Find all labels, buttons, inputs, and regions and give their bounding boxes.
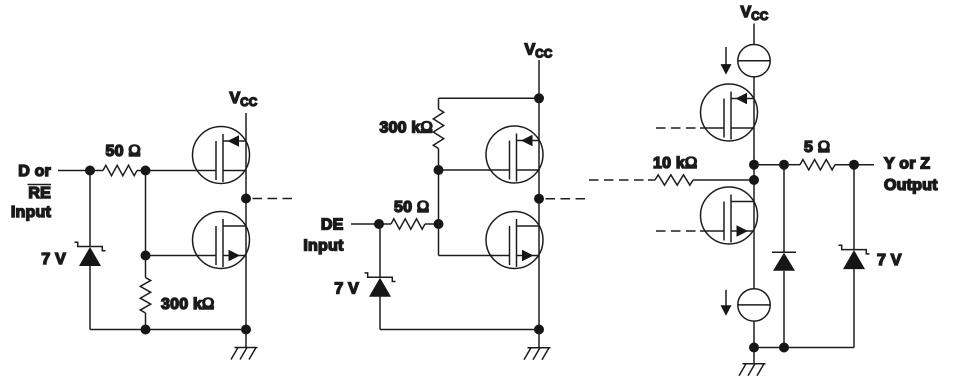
node A junction bbox=[85, 166, 95, 176]
svg-text:10 kΩ: 10 kΩ bbox=[653, 153, 697, 172]
svg-text:7 V: 7 V bbox=[877, 252, 902, 269]
current source I2 bbox=[738, 289, 770, 321]
node C junction bbox=[141, 251, 151, 261]
Vcc rail right bbox=[753, 77, 755, 288]
p-channel mosfet Q5 bbox=[701, 84, 758, 141]
wire I2 to ground node bbox=[753, 321, 755, 347]
Vcc label right bbox=[741, 4, 769, 23]
resistor R6 5 ohm bbox=[784, 160, 854, 170]
node K junction bbox=[749, 160, 759, 170]
resistor R1 50 ohm bbox=[90, 165, 146, 175]
wire node B down to node C bbox=[145, 171, 147, 256]
label 7 V bbox=[41, 251, 66, 268]
resistor R4 300 kohm bbox=[433, 98, 443, 170]
label 7 V middle bbox=[334, 281, 359, 298]
svg-text:5 Ω: 5 Ω bbox=[804, 137, 830, 156]
wire node A down to D1 bbox=[89, 171, 91, 247]
wire D3 anode to rail bbox=[783, 271, 785, 348]
svg-text:7 V: 7 V bbox=[41, 251, 66, 268]
current source I1 bbox=[738, 45, 770, 77]
node H junction mid bbox=[534, 194, 544, 204]
junction D3 to rail bbox=[779, 343, 789, 353]
n-channel mosfet Q4 bbox=[486, 212, 543, 269]
node M output junction bbox=[849, 160, 859, 170]
node F junction bbox=[434, 219, 444, 229]
svg-text:Y or Z: Y or Z bbox=[884, 156, 930, 173]
wire node E down to D2 bbox=[379, 224, 381, 277]
wire node F down to Q4 gate bbox=[439, 224, 511, 256]
ground symbol middle bbox=[524, 330, 551, 360]
ground node junction bbox=[749, 343, 759, 353]
node G junction bbox=[434, 165, 444, 175]
n-channel mosfet Q2 bbox=[193, 212, 250, 269]
arrow current direction I2 bbox=[721, 290, 732, 316]
svg-text:Output: Output bbox=[884, 177, 938, 194]
wire node G to Q3 gate bbox=[439, 169, 511, 171]
label 7 V right bbox=[877, 252, 902, 269]
label 10 kohm bbox=[653, 153, 697, 172]
svg-text:50 Ω: 50 Ω bbox=[394, 197, 429, 216]
svg-text:V: V bbox=[741, 4, 752, 21]
label 300 kohm middle bbox=[379, 118, 433, 137]
node J junction bbox=[749, 175, 759, 185]
resistor R3 50 ohm bbox=[379, 219, 439, 229]
junction R2 to rail bbox=[141, 325, 151, 335]
arrow current direction I1 bbox=[721, 47, 732, 75]
wire node F up to node G bbox=[438, 170, 440, 224]
svg-text:CC: CC bbox=[751, 11, 768, 23]
wire DE input to node E bbox=[351, 223, 379, 225]
svg-text:300 kΩ: 300 kΩ bbox=[161, 294, 215, 313]
junction on Vcc rail bbox=[534, 93, 544, 103]
wire R4 top to Vcc rail bbox=[439, 97, 540, 99]
bottom ground rail bbox=[90, 329, 246, 331]
wire node K to node L bbox=[754, 164, 784, 166]
wire node B to Q1 gate bbox=[146, 170, 217, 172]
svg-text:CC: CC bbox=[240, 97, 257, 109]
label 50 ohm middle bbox=[394, 197, 429, 216]
Vcc rail middle bbox=[538, 60, 540, 330]
p-channel mosfet Q3 bbox=[486, 126, 543, 183]
dashed continuation wire middle bbox=[546, 198, 591, 200]
svg-text:D or: D or bbox=[18, 163, 51, 180]
resistor R2 300 kohm bbox=[140, 256, 150, 330]
svg-text:V: V bbox=[230, 90, 241, 107]
wire node C to Q2 gate bbox=[146, 255, 217, 257]
junction rail to ground middle bbox=[534, 325, 544, 335]
svg-text:DE: DE bbox=[321, 217, 344, 234]
text label: DE Input bbox=[303, 217, 344, 255]
zener diode D2 7V bbox=[365, 273, 396, 297]
node L junction bbox=[779, 160, 789, 170]
p-channel mosfet Q1 bbox=[193, 127, 250, 184]
label 300 kohm bbox=[161, 294, 215, 313]
diode D3 bbox=[772, 252, 796, 270]
bottom rail right bbox=[754, 347, 854, 349]
label 50 ohm bbox=[106, 141, 141, 160]
Vcc label middle bbox=[525, 42, 553, 61]
ground symbol left bbox=[231, 330, 258, 360]
svg-text:CC: CC bbox=[535, 49, 552, 61]
svg-text:50 Ω: 50 Ω bbox=[106, 141, 141, 160]
svg-text:RE: RE bbox=[28, 185, 51, 202]
wire D2 anode to ground rail bbox=[379, 296, 381, 329]
wire D4 anode down bbox=[853, 269, 855, 348]
svg-text:V: V bbox=[525, 42, 536, 59]
node B junction bbox=[141, 166, 151, 176]
dashed feed wire to R5 bbox=[589, 179, 648, 181]
wire to output bbox=[854, 164, 874, 166]
n-channel mosfet Q6 bbox=[701, 187, 758, 244]
Vcc label left bbox=[230, 90, 258, 109]
dashed gate wire Q6 bbox=[656, 230, 724, 232]
node D junction mid bbox=[241, 194, 251, 204]
svg-text:Input: Input bbox=[11, 204, 52, 221]
dashed continuation wire left bbox=[253, 198, 295, 200]
svg-text:300 kΩ: 300 kΩ bbox=[379, 118, 433, 137]
svg-text:7 V: 7 V bbox=[334, 281, 359, 298]
ground symbol right bbox=[739, 348, 766, 376]
dashed gate wire Q5 bbox=[656, 127, 724, 129]
wire Vcc to current source I1 bbox=[753, 24, 755, 45]
zener diode D1 7V bbox=[75, 242, 106, 266]
Vcc rail left bbox=[245, 113, 247, 330]
bottom ground rail middle bbox=[380, 329, 539, 331]
wire node L down to D3 bbox=[783, 165, 785, 253]
text label: D or RE Input bbox=[11, 163, 52, 221]
wire node M down to D4 bbox=[853, 165, 855, 250]
node E junction bbox=[374, 219, 384, 229]
wire input to node A bbox=[58, 170, 90, 172]
svg-text:Input: Input bbox=[303, 238, 344, 255]
junction rail to ground bbox=[241, 325, 251, 335]
text label: Y or Z Output bbox=[884, 156, 938, 194]
label 5 ohm bbox=[804, 137, 830, 156]
resistor R5 10 kohm bbox=[648, 175, 754, 185]
zener diode D4 7V bbox=[839, 245, 870, 269]
wire D1 anode to ground rail bbox=[89, 266, 91, 330]
